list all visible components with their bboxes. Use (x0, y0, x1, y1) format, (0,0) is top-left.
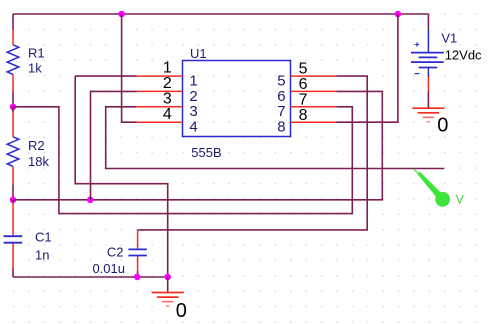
wire ground bottom rail (13, 276, 168, 278)
wire VCC top rail (13, 13, 428, 15)
svg-text:12Vdc: 12Vdc (445, 47, 482, 62)
wire R1/R2 junction to pin7 (down-around path) (13, 107, 352, 214)
wire trigger/threshold rail (R2 bottom to pin6 riser) (13, 91, 382, 199)
wire pin5 to C2 top (138, 76, 368, 230)
svg-text:0.01u: 0.01u (92, 261, 125, 276)
U1 pin 7 stub (291, 106, 337, 108)
svg-text:18k: 18k (28, 154, 49, 169)
ground 0 (main, bottom) (152, 277, 187, 322)
U1 pin 8 stub (291, 121, 337, 123)
wire V1 minus to ground (427, 92, 429, 108)
wire pin2 riser (91, 91, 137, 199)
resistor R2 (7, 107, 49, 200)
svg-text:1n: 1n (35, 248, 49, 263)
U1 pin 6 stub (291, 90, 337, 92)
capacitor C1 (4, 200, 52, 277)
V1 plus marker (415, 42, 419, 46)
U1 pin 5 stub (291, 75, 337, 77)
ground 0 (V1) (412, 108, 448, 136)
probe V marker (414, 169, 464, 207)
node R2-C1-rail junction (10, 197, 17, 204)
svg-text:8: 8 (277, 119, 285, 136)
svg-text:U1: U1 (190, 46, 207, 61)
capacitor C2 (92, 230, 146, 277)
node ground stem junction (164, 274, 171, 281)
U1 pin 4 stub (137, 121, 183, 123)
node junction top-left (pin4 riser) (118, 11, 125, 18)
node C2 bottom junction (134, 274, 141, 281)
wire pin8 riser (VCC rail down to pin 8) (336, 14, 398, 122)
svg-text:4: 4 (163, 106, 172, 123)
svg-text:0: 0 (176, 300, 187, 322)
svg-text:0: 0 (437, 115, 448, 137)
wire pin4 riser (VCC rail down to pin 4) (122, 14, 137, 122)
node pin2 riser junction on trigger rail (87, 197, 94, 204)
svg-text:4: 4 (189, 119, 197, 136)
V1 minus marker (415, 73, 420, 75)
V1 plates (411, 52, 444, 54)
svg-text:1k: 1k (28, 61, 42, 76)
svg-text:555B: 555B (191, 145, 221, 160)
resistor R1 (7, 14, 44, 107)
U1 pin 1 stub (137, 75, 183, 77)
svg-text:R2: R2 (28, 138, 45, 153)
node junction top-right (V1 branch) (395, 11, 402, 18)
svg-text:R1: R1 (28, 46, 45, 61)
wire pin3 output to probe (106, 107, 445, 169)
U1 body (183, 61, 291, 137)
svg-text:C1: C1 (35, 230, 52, 245)
svg-text:V1: V1 (441, 31, 457, 46)
svg-text:8: 8 (299, 107, 308, 124)
svg-text:C2: C2 (107, 245, 124, 260)
node R1-R2-pin7 junction (10, 104, 17, 111)
svg-text:V: V (456, 193, 464, 207)
IC U1 555B (137, 46, 337, 160)
U1 pin 3 stub (137, 106, 183, 108)
battery V1 (411, 14, 482, 92)
U1 pin 2 stub (137, 90, 183, 92)
wire pin1 to ground path (75, 76, 168, 277)
